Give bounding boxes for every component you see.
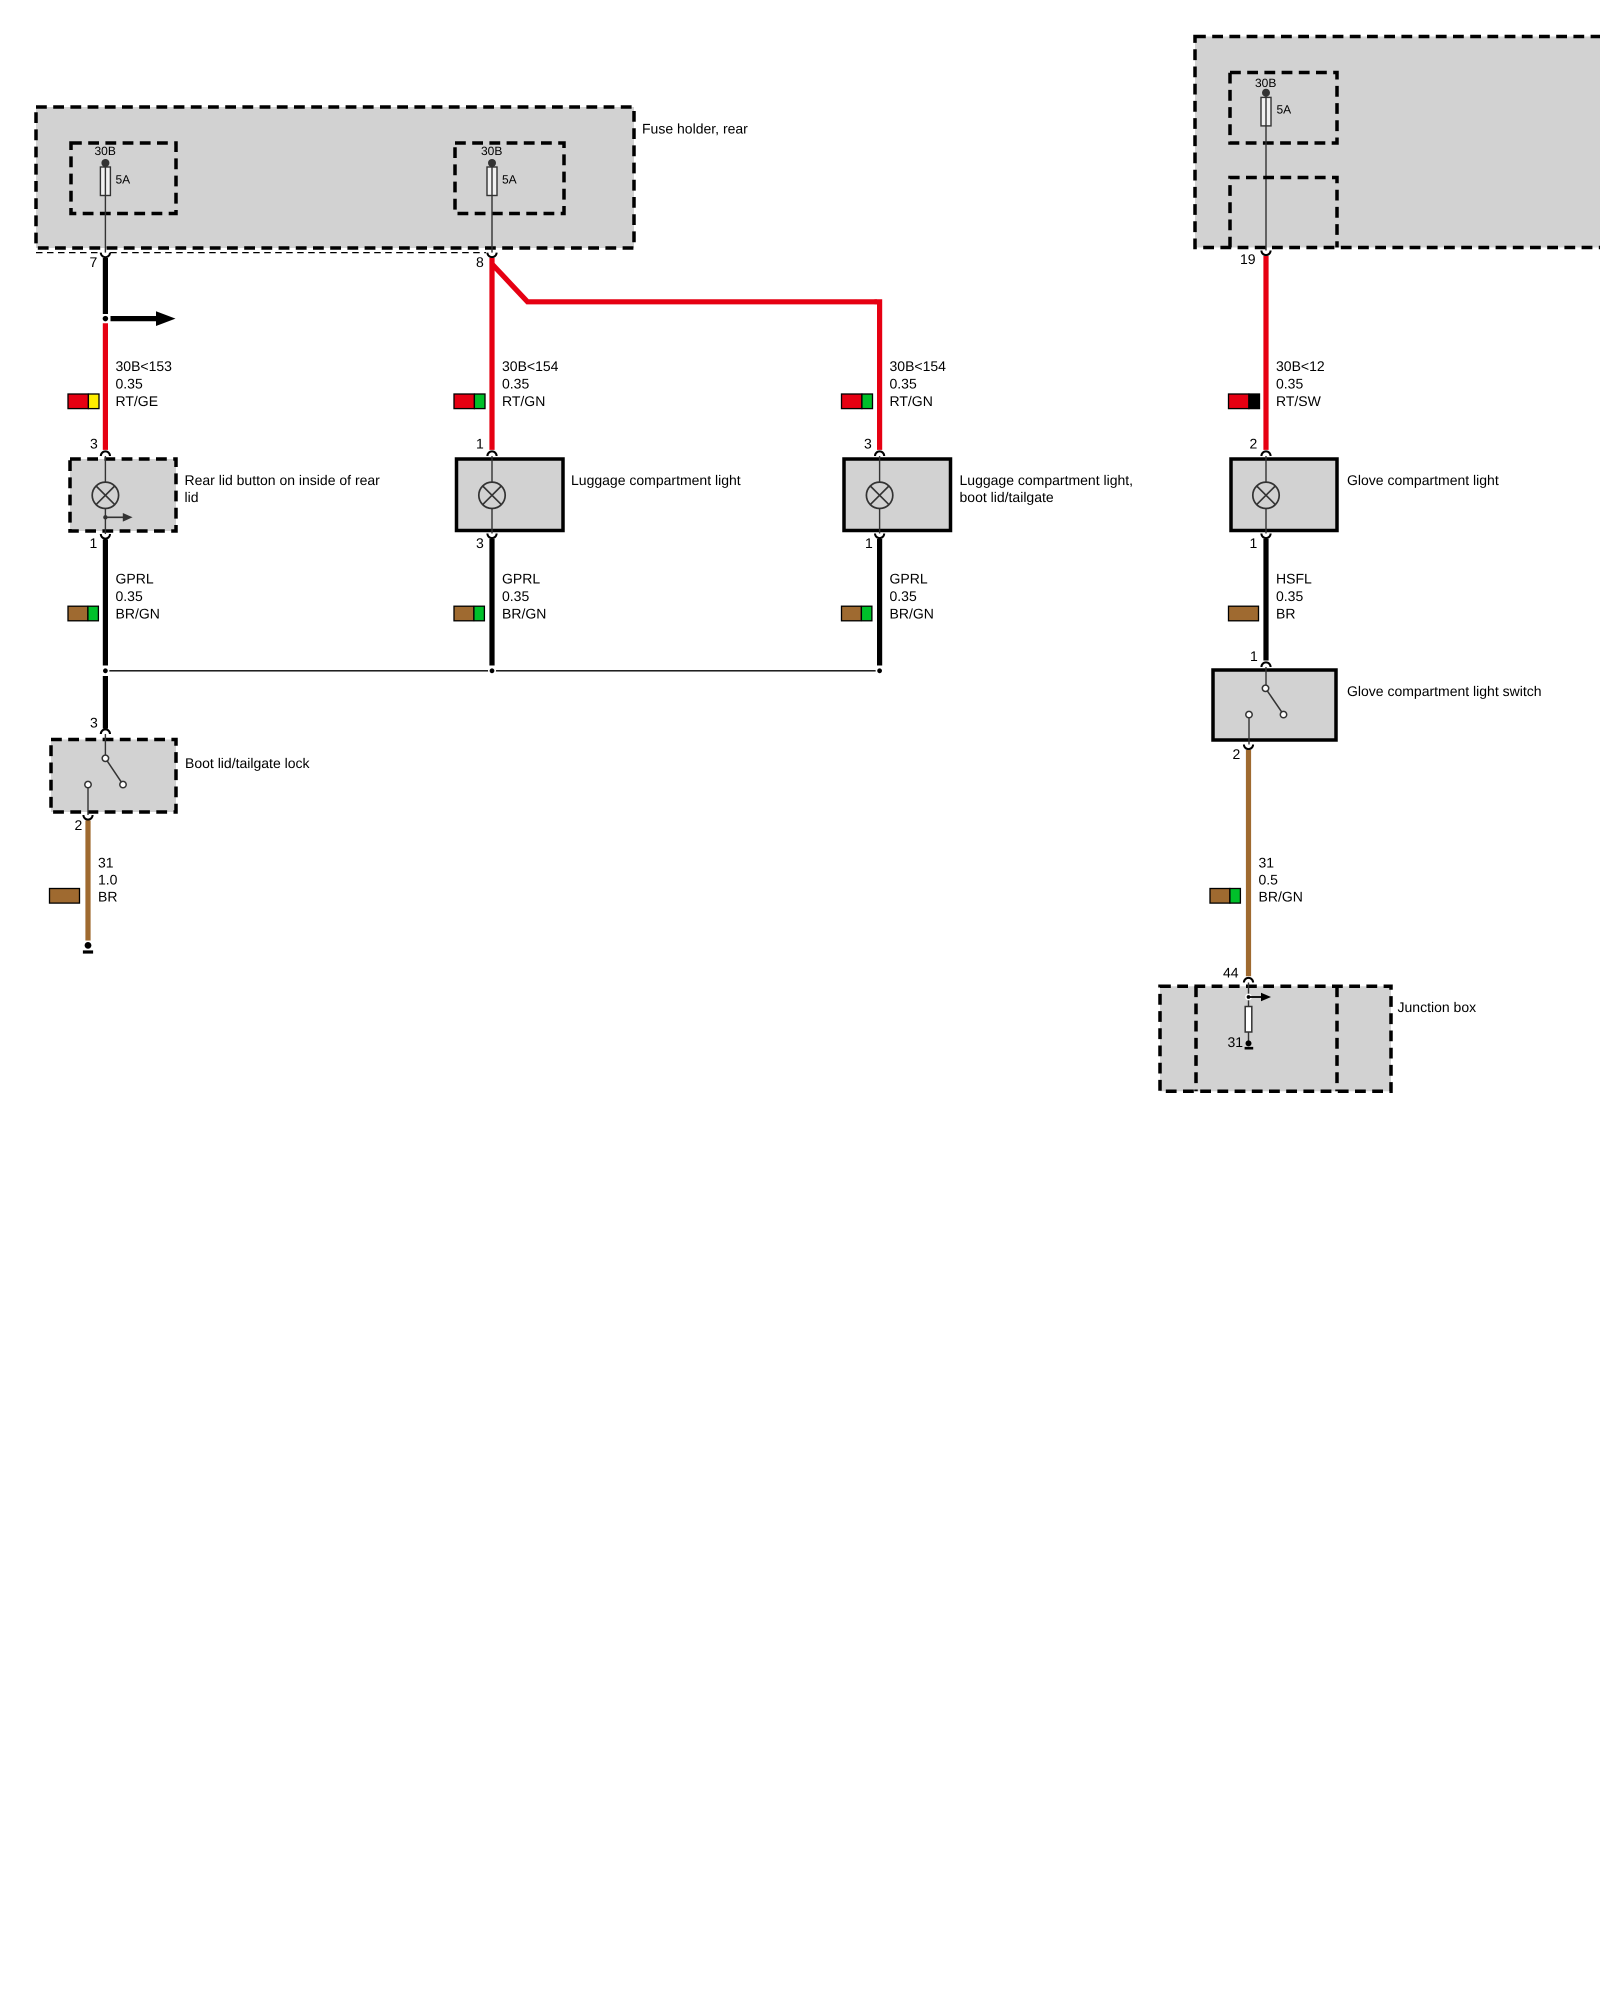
svg-text:BR/GN: BR/GN — [1259, 889, 1303, 905]
wire label GPRL left — [116, 571, 160, 622]
fuse F3 5A — [1230, 73, 1337, 251]
svg-text:30B<12: 30B<12 — [1276, 358, 1325, 374]
svg-text:BR: BR — [1276, 606, 1295, 622]
svg-text:Boot lid/tailgate lock: Boot lid/tailgate lock — [185, 755, 311, 771]
node B junction — [489, 668, 495, 674]
glove compartment light switch box — [1213, 670, 1542, 740]
svg-text:lid: lid — [185, 489, 199, 505]
fuse F2 5A — [455, 143, 564, 253]
node A junction — [102, 668, 108, 674]
colour swatch RT/GN B — [454, 394, 485, 409]
svg-text:30B<153: 30B<153 — [116, 358, 173, 374]
pin 8 — [476, 253, 497, 270]
wire RT/GN red trunk — [489, 258, 494, 450]
lamp L1 — [92, 456, 132, 534]
svg-text:0.35: 0.35 — [116, 376, 143, 392]
fuse F1 5A — [71, 143, 176, 253]
node C junction — [876, 668, 882, 674]
pin 1 lamp B — [476, 436, 497, 457]
junction fuse element — [1245, 1007, 1252, 1042]
boot lid tailgate lock box — [51, 740, 311, 813]
wire GPRL black B — [489, 539, 494, 666]
svg-text:BR: BR — [98, 889, 117, 905]
colour swatch BR left — [50, 889, 80, 904]
svg-text:Glove compartment light: Glove compartment light — [1347, 472, 1499, 488]
svg-text:1: 1 — [90, 535, 98, 551]
pin 3 lamp C — [864, 436, 884, 457]
colour swatch BR/GN right — [1210, 889, 1240, 904]
svg-text:RT/GN: RT/GN — [502, 393, 545, 409]
junction box — [1160, 986, 1476, 1091]
svg-text:RT/SW: RT/SW — [1276, 393, 1322, 409]
svg-text:0.35: 0.35 — [502, 376, 529, 392]
svg-text:30B: 30B — [1255, 76, 1276, 90]
wire label 30B<153 — [116, 358, 173, 409]
wire label 30B<12 — [1276, 358, 1325, 409]
svg-text:GPRL: GPRL — [890, 571, 928, 587]
wire label GPRL B — [502, 571, 546, 622]
wire label HSFL — [1276, 571, 1312, 622]
svg-text:31: 31 — [1228, 1034, 1244, 1050]
junction node arrow — [1246, 983, 1271, 1007]
ground left — [83, 942, 93, 952]
pin 44 — [1223, 965, 1253, 983]
inner empty box — [1230, 178, 1337, 248]
pin 1 switch — [1250, 648, 1271, 667]
svg-text:Luggage compartment light,: Luggage compartment light, — [960, 472, 1134, 488]
svg-text:31: 31 — [1259, 855, 1275, 871]
svg-text:1: 1 — [476, 436, 484, 452]
svg-text:RT/GN: RT/GN — [890, 393, 933, 409]
svg-text:0.35: 0.35 — [890, 376, 917, 392]
wire label 30B<154 C — [890, 358, 947, 409]
svg-text:19: 19 — [1240, 251, 1256, 267]
colour swatch BR/GN left — [68, 606, 98, 621]
wire RT/GE red — [103, 323, 108, 450]
wire 31 brown — [85, 821, 90, 941]
svg-text:5A: 5A — [502, 173, 517, 187]
wire label GPRL C — [890, 571, 934, 622]
pin 1 lamp C — [865, 534, 884, 552]
pin 1 — [90, 534, 111, 551]
svg-text:3: 3 — [476, 535, 484, 551]
pin 2 lock — [75, 815, 93, 833]
svg-text:1: 1 — [1250, 648, 1258, 664]
lamp L2 — [479, 456, 505, 534]
pin 3 — [90, 436, 110, 457]
svg-text:HSFL: HSFL — [1276, 571, 1312, 587]
wire black to lock — [103, 676, 108, 729]
svg-text:2: 2 — [1233, 746, 1241, 762]
svg-text:Fuse holder, rear: Fuse holder, rear — [642, 121, 748, 137]
pin 2 glove lamp — [1250, 436, 1271, 457]
pin 3 lock — [90, 715, 110, 735]
ground 31 in junction box — [1228, 1034, 1254, 1050]
pin 1 glove lamp — [1250, 534, 1271, 552]
svg-text:GPRL: GPRL — [116, 571, 154, 587]
wire HSFL black — [1263, 539, 1268, 661]
svg-text:BR/GN: BR/GN — [116, 606, 160, 622]
colour swatch BR/GN C — [842, 606, 872, 621]
wire GPRL black C — [877, 539, 882, 666]
pin 3 lamp B — [476, 534, 497, 552]
svg-text:7: 7 — [90, 254, 98, 270]
svg-text:30B<154: 30B<154 — [502, 358, 559, 374]
svg-text:0.5: 0.5 — [1259, 872, 1279, 888]
svg-text:3: 3 — [864, 436, 872, 452]
svg-text:0.35: 0.35 — [1276, 588, 1303, 604]
svg-text:1: 1 — [865, 535, 873, 551]
svg-text:RT/GE: RT/GE — [116, 393, 159, 409]
colour swatch BR right — [1229, 606, 1259, 621]
pin 7 — [90, 253, 111, 270]
wire 31 brown right — [1246, 750, 1251, 976]
fuse holder rear box — [36, 107, 748, 248]
colour swatch RT/SW — [1229, 394, 1260, 409]
colour swatch BR/GN B — [454, 606, 484, 621]
svg-text:Rear lid button on inside of r: Rear lid button on inside of rear — [185, 472, 381, 488]
lamp L3 — [866, 456, 892, 534]
svg-text:30B: 30B — [95, 144, 116, 158]
svg-text:1.0: 1.0 — [98, 872, 118, 888]
svg-text:8: 8 — [476, 254, 484, 270]
svg-text:5A: 5A — [116, 173, 131, 187]
svg-text:3: 3 — [90, 436, 98, 452]
svg-text:44: 44 — [1223, 965, 1239, 981]
glove compartment light box — [1231, 459, 1499, 531]
svg-text:30B: 30B — [481, 144, 502, 158]
svg-text:0.35: 0.35 — [502, 588, 529, 604]
svg-text:BR/GN: BR/GN — [890, 606, 934, 622]
node with arrow — [102, 311, 176, 326]
switch S1 — [85, 734, 126, 815]
switch S2 — [1246, 667, 1287, 745]
wire red branch to C — [492, 264, 880, 450]
svg-text:5A: 5A — [1277, 103, 1292, 117]
continuation dashed line — [36, 252, 486, 254]
rear lid button box — [70, 459, 380, 531]
svg-text:Glove compartment light switch: Glove compartment light switch — [1347, 683, 1542, 699]
svg-text:Junction box: Junction box — [1398, 999, 1477, 1015]
svg-text:Luggage compartment light: Luggage compartment light — [571, 472, 741, 488]
svg-text:2: 2 — [75, 817, 83, 833]
wire label 31 left — [98, 855, 118, 905]
ground bus line — [105, 670, 879, 672]
svg-text:30B<154: 30B<154 — [890, 358, 947, 374]
wire GPRL black — [103, 540, 108, 666]
luggage compartment light box — [457, 459, 741, 531]
pin 19 — [1240, 251, 1271, 268]
lamp L4 — [1253, 456, 1279, 534]
colour swatch RT/GE — [68, 394, 99, 409]
svg-text:3: 3 — [90, 715, 98, 731]
svg-text:0.35: 0.35 — [890, 588, 917, 604]
svg-text:BR/GN: BR/GN — [502, 606, 546, 622]
wire RT/SW red — [1263, 256, 1268, 450]
wire label 31 right — [1259, 855, 1303, 905]
svg-text:GPRL: GPRL — [502, 571, 540, 587]
svg-text:0.35: 0.35 — [1276, 376, 1303, 392]
svg-text:0.35: 0.35 — [116, 588, 143, 604]
wire label 30B<154 B — [502, 358, 559, 409]
luggage compartment light boot lid box — [844, 459, 1133, 531]
colour swatch RT/GN C — [842, 394, 873, 409]
svg-text:boot lid/tailgate: boot lid/tailgate — [960, 489, 1054, 505]
fuse carrier top right box — [1195, 37, 1600, 248]
svg-text:31: 31 — [98, 855, 114, 871]
svg-text:2: 2 — [1250, 436, 1258, 452]
svg-text:1: 1 — [1250, 535, 1258, 551]
pin 2 switch — [1233, 745, 1254, 763]
wire black from pin 7 — [103, 258, 108, 314]
